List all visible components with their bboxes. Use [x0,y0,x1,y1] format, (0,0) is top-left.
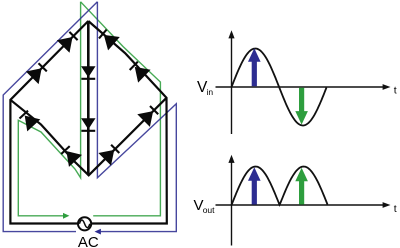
svg-text:t: t [394,203,397,215]
svg-text:t: t [394,85,397,97]
svg-text:out: out [203,205,215,215]
svg-text:in: in [207,87,214,97]
svg-text:AC: AC [78,234,99,248]
